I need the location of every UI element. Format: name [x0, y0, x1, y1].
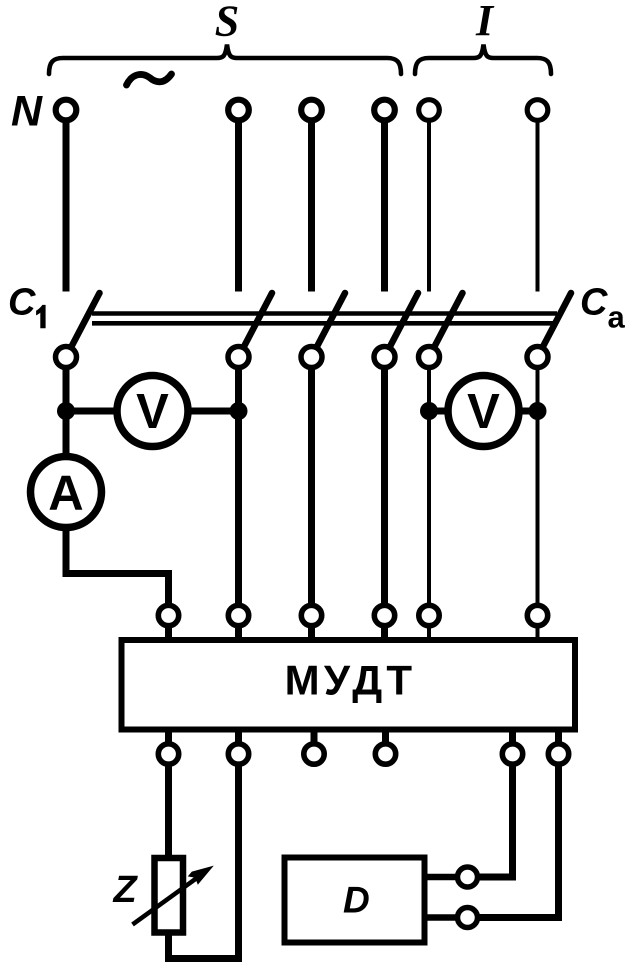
junction dot col2	[230, 402, 248, 420]
svg-text:N: N	[11, 88, 43, 136]
svg-text:V: V	[136, 385, 169, 439]
mudt top pin stub 4	[381, 616, 388, 642]
terminal 1	[56, 100, 77, 121]
wire col6 top	[536, 110, 540, 292]
D terminal stub bottom	[427, 914, 468, 921]
mudt top pin stub 6	[536, 616, 540, 642]
wire col2 below switch	[235, 357, 242, 616]
wire col3 below switch	[308, 357, 315, 616]
mudt top pin circle 5	[419, 605, 439, 625]
label Ca	[580, 282, 626, 335]
wire voltmeter left horizontal	[66, 408, 239, 415]
junction dot col1	[57, 402, 75, 420]
svg-text:Z: Z	[113, 869, 139, 911]
switch blade 3	[312, 293, 346, 357]
mudt top pin circle 4	[374, 605, 394, 625]
mudt bottom pin stub 2	[235, 730, 242, 755]
mudt top pin circle 2	[228, 605, 248, 625]
switch blade 6	[538, 293, 572, 357]
wire col5 below switch	[427, 357, 431, 616]
wire pin6 down-left to D terminal	[468, 754, 559, 918]
brace I	[415, 45, 551, 75]
voltmeter V2	[448, 376, 519, 447]
svg-text:D: D	[343, 880, 370, 921]
detector D box	[285, 858, 425, 943]
wire col5 top	[427, 110, 431, 292]
mudt bottom pin circle 3	[304, 744, 324, 764]
arrow through Z	[133, 875, 202, 925]
mudt top pin circle 1	[158, 605, 178, 625]
brace S	[49, 45, 401, 75]
D terminal stub top	[427, 874, 468, 881]
impedance Z rectangle	[155, 858, 184, 933]
mudt bottom pin circle 1	[158, 744, 178, 764]
MUDT box	[122, 640, 576, 730]
wire col6 below switch	[536, 357, 540, 616]
ammeter A	[31, 457, 102, 528]
switch blade 2	[239, 293, 273, 357]
D terminal circle bottom	[458, 908, 478, 928]
terminal 4	[374, 100, 395, 121]
switch contact circle 4	[374, 347, 395, 368]
junction dot col6	[529, 402, 547, 420]
mudt bottom pin stub 5	[509, 730, 516, 755]
switch contact circle 2	[228, 347, 249, 368]
svg-text:S: S	[215, 0, 239, 46]
switch contact circle 6	[527, 347, 548, 368]
mudt top pin circle 3	[301, 605, 321, 625]
switch contact circle 3	[301, 347, 322, 368]
switch blade 4	[385, 293, 419, 357]
svg-text:I: I	[475, 0, 495, 45]
svg-text:A: A	[48, 467, 83, 521]
terminal 5	[419, 100, 440, 121]
mudt top pin circle 6	[527, 605, 547, 625]
svg-text:a: a	[608, 300, 626, 335]
mudt bottom pin stub 6	[555, 730, 562, 755]
wire col1 top	[63, 110, 70, 292]
wire pin2 down	[235, 754, 242, 959]
switch contact circle 5	[419, 347, 440, 368]
mudt top pin stub 1	[165, 616, 172, 642]
wire col4 top	[381, 110, 388, 292]
mudt bottom pin circle 6	[548, 744, 568, 764]
mudt top pin stub 2	[235, 616, 242, 642]
voltmeter V1	[117, 376, 188, 447]
wire pin5 down-left to D terminal	[468, 754, 513, 878]
mudt bottom pin stub 1	[165, 730, 172, 755]
wire col1 below ammeter (jog to pin1)	[66, 527, 169, 616]
label C1	[8, 282, 46, 329]
mudt top pin stub 5	[427, 616, 431, 642]
gang bar line 2	[92, 321, 557, 326]
switch contact circle 1	[56, 347, 77, 368]
D terminal circle top	[458, 867, 478, 887]
mudt bottom pin stub 4	[382, 730, 389, 755]
junction dot col5	[420, 402, 438, 420]
wire col3 top	[308, 110, 315, 292]
wire col4 below switch	[381, 357, 388, 616]
wire below Z to bottom horizontal	[169, 763, 239, 959]
terminal 3	[301, 100, 322, 121]
terminal 6	[527, 100, 548, 121]
svg-text:МУДТ: МУДТ	[285, 657, 417, 704]
mudt bottom pin stub 3	[311, 730, 318, 755]
switch blade C1	[66, 293, 100, 357]
wire col1 below switch	[63, 357, 70, 460]
AC tilde symbol	[127, 74, 172, 85]
switch blade 5	[429, 293, 463, 357]
terminal 2	[228, 100, 249, 121]
mudt bottom pin circle 2	[228, 744, 248, 764]
wire pin1 to Z	[165, 754, 172, 860]
mudt bottom pin circle 4	[375, 744, 395, 764]
gang bar line 1	[92, 311, 557, 316]
svg-text:C: C	[580, 282, 608, 324]
mudt bottom pin circle 5	[502, 744, 522, 764]
mudt top pin stub 3	[308, 616, 315, 642]
wire voltmeter right horizontal	[429, 408, 538, 415]
svg-text:C: C	[8, 282, 36, 324]
svg-text:V: V	[467, 385, 500, 439]
wire col2 top	[235, 110, 242, 292]
